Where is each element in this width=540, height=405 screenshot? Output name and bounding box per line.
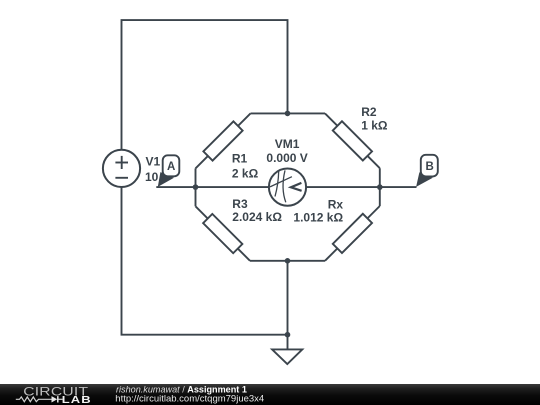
wire bottom stub (250, 260, 325, 262)
svg-text:R2: R2 (361, 105, 377, 119)
wire node A to voltmeter (156, 186, 269, 188)
label R1 value (232, 151, 259, 180)
label V1 value (145, 155, 170, 184)
wire R3 diagonal (196, 206, 251, 260)
svg-text:2 kΩ: 2 kΩ (232, 166, 259, 180)
CircuitLab logo (16, 384, 92, 405)
wire left vertical stub (195, 168, 197, 206)
junction node top (285, 111, 291, 117)
node flag A (158, 155, 180, 187)
svg-text:0.000 V: 0.000 V (266, 151, 307, 165)
label VM1 value (266, 137, 307, 165)
footer title text (115, 384, 264, 404)
resistor R2 (333, 121, 372, 160)
wire voltmeter to node B (306, 186, 417, 188)
svg-text:B: B (425, 161, 433, 173)
svg-text:A: A (167, 161, 175, 173)
svg-text:V1: V1 (146, 155, 161, 169)
ground (272, 349, 302, 364)
junction node ground rail (285, 332, 291, 338)
svg-text:1 kΩ: 1 kΩ (361, 118, 388, 132)
resistor R3 (203, 214, 242, 253)
junction node bottom (285, 258, 291, 264)
voltmeter VM1 (269, 169, 306, 206)
wire Rx diagonal (325, 206, 380, 261)
label R3 value (232, 197, 282, 224)
node flag B (416, 155, 438, 187)
resistor R1 (203, 121, 242, 160)
svg-text:R1: R1 (232, 151, 248, 165)
voltage source V1 (103, 150, 140, 187)
svg-text:R3: R3 (232, 197, 248, 211)
svg-text:2.024 kΩ: 2.024 kΩ (232, 210, 282, 224)
svg-text:LAB: LAB (62, 394, 92, 405)
wire R1 diagonal (196, 113, 251, 168)
wire R2 diagonal (325, 113, 380, 168)
label Rx value (293, 197, 343, 224)
wire top rail (122, 20, 288, 150)
resistor Rx (333, 214, 372, 253)
svg-text:http://circuitlab.com/ctqgm79j: http://circuitlab.com/ctqgm79jue3x4 (115, 393, 264, 404)
wire right vertical stub (379, 168, 381, 206)
junction node right (B) (377, 184, 383, 190)
junction node left (A) (193, 184, 199, 190)
wire bridge bottom to ground (287, 261, 289, 350)
wire V1 bottom to bottom rail (122, 187, 288, 335)
svg-text:VM1: VM1 (275, 137, 300, 151)
svg-text:1.012 kΩ: 1.012 kΩ (293, 210, 343, 224)
label R2 value (361, 105, 388, 132)
wire top stub (251, 112, 326, 114)
svg-text:Rx: Rx (328, 197, 344, 211)
footer bar (0, 384, 540, 405)
